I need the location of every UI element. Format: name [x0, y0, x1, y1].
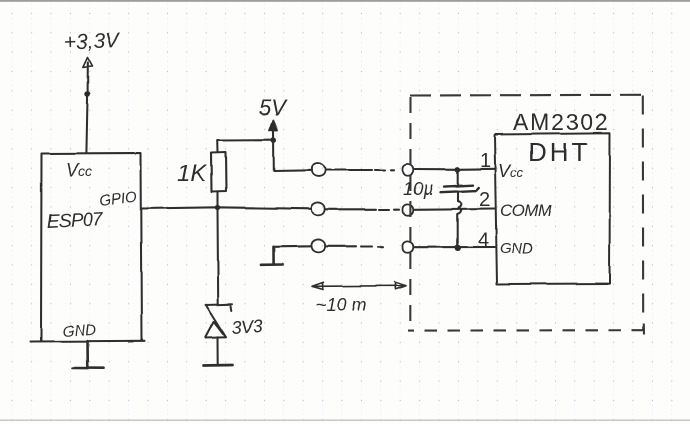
dimension arrow ~10m [312, 282, 406, 290]
svg-text:Vcc: Vcc [66, 160, 92, 180]
svg-text:10µ: 10µ [403, 179, 433, 199]
wire resistor top lead to 5V rail [217, 140, 274, 152]
capacitor C1 plates [441, 185, 479, 192]
connector row1 circle right [402, 164, 413, 175]
module outline dashed box [408, 95, 644, 335]
capacitor C1 bottom lead with hop over COMM wire [458, 193, 462, 249]
wire row2 to cable [326, 208, 377, 210]
wire row2 into DHT COMM pin 2 [415, 208, 496, 211]
junction dot capacitor to GND wire [455, 245, 461, 251]
wire row3 to cable [326, 245, 356, 247]
junction dot GPIO/resistor node [215, 205, 220, 210]
svg-text:2: 2 [479, 189, 490, 211]
cable dashes row1 [375, 169, 394, 171]
corner tick bottom-right of dashed box [643, 324, 645, 335]
svg-text:GND: GND [62, 322, 97, 341]
svg-text:1K: 1K [177, 160, 207, 187]
wire resistor bottom lead [216, 192, 218, 207]
junction dot capacitor top [455, 167, 460, 172]
cable dashes row2 [379, 208, 399, 210]
wire GND stub row3 [274, 245, 312, 248]
junction dot 5V rail [271, 138, 276, 143]
ground row3 left [261, 247, 283, 265]
junction dot on 3,3V wire [85, 91, 91, 97]
svg-text:COMM: COMM [500, 201, 553, 220]
scan top edge [0, 0, 690, 2]
wire +3,3V to Vcc pin [86, 63, 87, 154]
svg-text:1: 1 [480, 150, 491, 172]
svg-text:AM2302: AM2302 [513, 109, 609, 135]
wire row3 into DHT GND pin 4 [415, 246, 496, 248]
svg-text:DHT: DHT [528, 137, 590, 167]
wire zener to ground [217, 337, 219, 364]
connector row2 circle right [402, 204, 413, 215]
capacitor C1 top lead [457, 170, 459, 185]
resistor R1 1K body [211, 152, 226, 192]
svg-text:+3,3V: +3,3V [63, 29, 121, 54]
wire 5V down to connector row 1 [274, 128, 312, 171]
connector row3 circle right [402, 241, 413, 252]
wire row1 to cable [326, 169, 373, 171]
supply +3,3V arrow [83, 58, 93, 68]
cable dashes row3 [361, 245, 383, 247]
svg-text:~10 m: ~10 m [316, 295, 367, 315]
IC U2 DHT sensor box [495, 133, 611, 284]
svg-text:GND: GND [500, 240, 534, 257]
wire row1 into DHT Vcc pin 1 [415, 168, 496, 171]
connector row2 circle left [311, 203, 325, 216]
ground below ESP07 [73, 341, 104, 368]
ground below zener [204, 364, 233, 367]
diode D1 zener 3V3 [206, 304, 233, 338]
supply 5V arrow [270, 121, 278, 132]
svg-text:3V3: 3V3 [231, 316, 263, 338]
wire GPIO from ESP07 to node [142, 207, 312, 209]
wire GPIO node down to zener [216, 208, 219, 305]
connector J1 pin row1 circle left [311, 163, 325, 176]
scan bottom edge [0, 420, 690, 421]
svg-text:ESP07: ESP07 [46, 209, 104, 233]
connector row3 circle left [311, 240, 325, 253]
svg-text:4: 4 [478, 229, 489, 251]
IC U1 ESP07 box [31, 153, 145, 342]
svg-text:5V: 5V [259, 95, 288, 120]
